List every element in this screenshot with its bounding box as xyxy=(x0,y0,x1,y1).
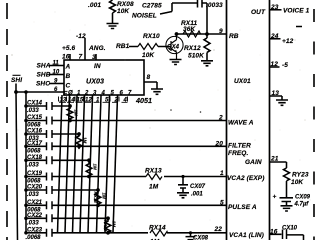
svg-text:SHB: SHB xyxy=(37,72,51,79)
svg-text:23: 23 xyxy=(270,4,279,11)
capacitor CX23 plates xyxy=(47,229,53,237)
svg-text:1M: 1M xyxy=(83,137,88,144)
svg-text:8: 8 xyxy=(147,74,151,81)
svg-text:.033: .033 xyxy=(27,108,39,114)
svg-text:CX15: CX15 xyxy=(27,115,43,121)
svg-text:A: A xyxy=(65,64,71,71)
resistor 1M (CX16/CX17 pair) xyxy=(76,134,82,149)
svg-text:UX01: UX01 xyxy=(234,78,251,85)
svg-text:CX09: CX09 xyxy=(295,195,311,201)
capacitor CX15 .0068 row wire (WAVE A) xyxy=(26,120,227,122)
capacitor CX15 plates xyxy=(47,117,53,125)
4051 channel line 7 (pin 4) xyxy=(113,95,118,233)
svg-text:CX16: CX16 xyxy=(27,129,43,135)
resistor 1M (CX18/CX19 pair) xyxy=(86,160,92,177)
wire NOISEL to C2785 node xyxy=(160,3,197,14)
svg-text:10K: 10K xyxy=(117,8,130,15)
svg-text:3: 3 xyxy=(92,54,96,61)
resistor RY23 10K xyxy=(284,168,290,198)
capacitor CX14 plates xyxy=(47,102,53,110)
svg-text:1M: 1M xyxy=(102,193,107,200)
4051 channel line 3 (pin 12) xyxy=(80,95,85,233)
node: RX12/cap junction xyxy=(205,32,209,36)
capacitor C? value .001 (top-left, clipped) xyxy=(0,0,1,1)
wire .0033 cap to RB node xyxy=(206,3,208,34)
capacitor bus (sample/hold common) xyxy=(25,92,27,233)
svg-text:RX08: RX08 xyxy=(117,1,134,8)
svg-text:10K: 10K xyxy=(142,52,155,59)
capacitor CX08 (clipped at bottom) xyxy=(186,233,196,240)
svg-text:CX22: CX22 xyxy=(27,213,43,219)
svg-text:RX19: RX19 xyxy=(103,220,108,232)
capacitor CX21 .0068 row wire (PULSE A) xyxy=(26,204,227,206)
ground (UX03 pin 8) xyxy=(151,89,163,94)
wire SHA to pin 11 xyxy=(49,65,64,67)
svg-text:20: 20 xyxy=(215,140,224,147)
4051 channel line 2 (pin 15) xyxy=(72,95,77,233)
resistor 1M (CX14/CX15 pair) xyxy=(67,106,73,121)
left page boundary (dashed) xyxy=(6,0,8,240)
svg-text:4: 4 xyxy=(101,91,106,97)
svg-text:.001: .001 xyxy=(88,2,101,9)
svg-text:VOICE 1: VOICE 1 xyxy=(283,7,310,14)
svg-text:9: 9 xyxy=(219,28,223,35)
svg-text:SHA: SHA xyxy=(37,63,51,70)
svg-text:.0033: .0033 xyxy=(206,2,223,9)
resistor 1M (CX20/CX21 pair) xyxy=(95,190,101,206)
pin 7 wire (-12) xyxy=(84,38,86,60)
capacitor CX21 plates xyxy=(47,201,53,209)
capacitor CX16 .033 row wire xyxy=(26,133,79,135)
svg-text:RX13: RX13 xyxy=(145,168,162,175)
capacitor CX19 .0068 row wire (VCA2 EXP) xyxy=(26,176,227,178)
svg-text:14: 14 xyxy=(68,98,75,104)
svg-text:CX17: CX17 xyxy=(27,141,43,147)
pin 24 stub (+12) xyxy=(270,38,281,40)
pin 16 stub (+5.6) xyxy=(69,54,71,60)
wire SHB to pin 10 xyxy=(49,74,64,76)
IC UX03 4051 body xyxy=(64,60,144,95)
svg-text:RY23: RY23 xyxy=(292,172,309,179)
svg-text:CX08: CX08 xyxy=(193,236,209,240)
pin separator ticks under UX03 xyxy=(59,97,128,102)
IC UX01 left edge xyxy=(226,0,228,240)
svg-text:QX4: QX4 xyxy=(167,45,180,51)
transistor QX4 (2SC2785) xyxy=(166,36,183,53)
svg-text:ANG.: ANG. xyxy=(88,45,106,52)
capacitor CX20 plates xyxy=(47,186,53,194)
svg-text:4051: 4051 xyxy=(135,96,152,105)
svg-text:1M: 1M xyxy=(74,110,79,117)
svg-text:4: 4 xyxy=(123,98,128,104)
svg-text:510K: 510K xyxy=(188,53,205,60)
svg-text:C2785: C2785 xyxy=(142,2,162,9)
wire SHC to pin 9 xyxy=(49,83,64,85)
ground (QX4 emitter) xyxy=(170,60,182,65)
svg-text:.033: .033 xyxy=(27,221,39,227)
IC UX01 right edge xyxy=(269,0,271,240)
resistor RX12 510K xyxy=(204,34,210,61)
ground (CX07) xyxy=(177,193,189,198)
svg-text:RX14: RX14 xyxy=(149,225,166,232)
pin 12 stub (-5) xyxy=(270,66,280,68)
capacitor CX23 .0068 row wire (VCA1 LIN) xyxy=(26,232,227,234)
svg-text:CX14: CX14 xyxy=(27,101,43,107)
svg-text:SHI: SHI xyxy=(11,77,22,84)
wire RB net (QX4 collector to pin 9) xyxy=(177,33,227,35)
svg-text:UX03: UX03 xyxy=(86,77,104,86)
capacitor CX07 .001 to ground xyxy=(178,177,188,193)
4051 channel line 1 (pin 14) xyxy=(65,95,70,233)
pin 16 stub and capacitor CX10 xyxy=(270,234,304,240)
svg-text:2: 2 xyxy=(114,98,119,104)
svg-text:13: 13 xyxy=(272,90,280,97)
svg-text:.033: .033 xyxy=(27,192,39,198)
svg-text:C: C xyxy=(66,83,71,90)
svg-text:12: 12 xyxy=(271,61,279,68)
4051 channel line 6 (pin 2) xyxy=(105,95,110,233)
capacitor CX09 4.7uf (polarized) xyxy=(280,198,294,206)
svg-text:RX10: RX10 xyxy=(143,33,160,40)
svg-text:.0068: .0068 xyxy=(26,149,42,155)
svg-text:-12: -12 xyxy=(76,33,86,40)
svg-text:.001: .001 xyxy=(191,192,203,198)
capacitor CX18 .033 row wire xyxy=(26,159,89,161)
svg-text:21: 21 xyxy=(270,156,279,163)
capacitor CX18 plates xyxy=(47,156,53,164)
4051 channel line 0 (pin 13) xyxy=(57,95,62,233)
resistor RX13 1M xyxy=(146,174,162,180)
svg-text:11: 11 xyxy=(53,61,60,67)
speck marks (scan artifacts) xyxy=(170,109,172,111)
svg-text:VCA1 (LIN): VCA1 (LIN) xyxy=(229,232,264,239)
svg-text:22: 22 xyxy=(214,226,223,233)
svg-text:1: 1 xyxy=(220,170,224,177)
capacitor CX22 .033 row wire xyxy=(26,217,108,219)
capacitor CX17 .0068 row wire (FILTER FREQ) xyxy=(26,145,227,147)
svg-text:CX07: CX07 xyxy=(190,184,206,190)
capacitor CX14 .033 row wire xyxy=(26,105,70,107)
capacitor CX17 plates xyxy=(47,142,53,150)
svg-text:16: 16 xyxy=(62,54,70,61)
pin 23 stub (VOICE 1) xyxy=(270,9,282,11)
svg-text:24: 24 xyxy=(270,33,279,40)
resistor RX14 1M xyxy=(150,230,168,236)
capacitor CX22 plates xyxy=(47,214,53,222)
svg-text:16: 16 xyxy=(270,228,278,235)
ground (RX08) xyxy=(107,24,119,29)
capacitor .0033 xyxy=(198,0,208,8)
svg-text:FILTER: FILTER xyxy=(228,143,251,150)
svg-text:10K: 10K xyxy=(291,179,304,186)
capacitor CX20 .033 row wire xyxy=(26,189,98,191)
svg-text:CX20: CX20 xyxy=(27,185,43,191)
ground (CX09) xyxy=(281,206,293,211)
node: QX4 collector junction xyxy=(175,32,179,36)
svg-text:.0068: .0068 xyxy=(26,123,42,129)
svg-text:7: 7 xyxy=(79,54,83,61)
svg-text:.033: .033 xyxy=(27,162,39,168)
svg-text:13: 13 xyxy=(60,98,67,104)
svg-text:PULSE A: PULSE A xyxy=(228,204,257,211)
capacitor CX19 plates xyxy=(47,173,53,181)
pin 8 wire to ground xyxy=(144,82,157,89)
svg-text:VCA2 (EXP): VCA2 (EXP) xyxy=(227,175,264,182)
pin 21 wire (GAIN) to RY23 xyxy=(270,162,287,168)
svg-text:RX12: RX12 xyxy=(184,45,201,52)
resistor RX08 10K xyxy=(110,0,116,23)
svg-text:B: B xyxy=(66,73,71,80)
wire SHI to pin 6 (E) xyxy=(16,84,64,240)
svg-text:GAIN: GAIN xyxy=(245,159,262,166)
svg-text:4.7µf: 4.7µf xyxy=(294,202,310,208)
pin number underlines under UX03 xyxy=(59,101,128,103)
svg-text:15: 15 xyxy=(77,98,84,104)
svg-text:1M: 1M xyxy=(112,221,117,228)
svg-text:2: 2 xyxy=(218,115,223,122)
svg-text:FREQ.: FREQ. xyxy=(228,150,248,157)
svg-text:10: 10 xyxy=(53,70,60,76)
svg-text:12: 12 xyxy=(85,98,92,104)
svg-text:2: 2 xyxy=(84,91,89,97)
ground (RX12) xyxy=(201,61,213,66)
svg-text:1M: 1M xyxy=(93,164,98,171)
svg-text:36K: 36K xyxy=(183,26,196,33)
svg-text:Ø: Ø xyxy=(68,91,73,97)
4051 channel line 5 (pin 5) xyxy=(96,95,101,233)
resistor 1M (CX22/CX23 pair) xyxy=(105,218,111,234)
svg-text:IN: IN xyxy=(94,63,101,70)
svg-text:OUT: OUT xyxy=(251,9,266,16)
wire RB1 to QX4 base xyxy=(129,46,171,48)
node SHI corner xyxy=(14,90,18,94)
right page boundary (dashed) xyxy=(313,9,315,240)
4051 channel line 4 (pin 1) xyxy=(88,95,93,233)
minus sign near VOICE 1 xyxy=(296,26,302,28)
pin 3 stub (ANLG IN) xyxy=(95,54,97,60)
capacitor CX16 plates xyxy=(47,130,53,138)
svg-text:RX18: RX18 xyxy=(93,192,98,204)
svg-text:NOISEL: NOISEL xyxy=(132,13,157,20)
svg-text:SHC: SHC xyxy=(36,81,50,88)
svg-text:+5.6: +5.6 xyxy=(62,45,76,52)
svg-text:1M: 1M xyxy=(149,184,159,191)
svg-text:+: + xyxy=(273,194,277,201)
resistor RX10 10K xyxy=(138,44,158,50)
svg-text:CX21: CX21 xyxy=(27,200,43,206)
svg-text:5: 5 xyxy=(220,200,224,207)
svg-text:CX18: CX18 xyxy=(27,155,43,161)
svg-text:+12: +12 xyxy=(282,38,294,45)
ground (UX01 pin 13) xyxy=(276,100,288,105)
svg-text:.0068: .0068 xyxy=(26,235,42,240)
svg-text:-5: -5 xyxy=(282,62,288,69)
svg-text:RB: RB xyxy=(229,33,239,40)
resistor RX11 36K xyxy=(183,31,201,37)
svg-text:WAVE A: WAVE A xyxy=(228,120,254,127)
pin 13 stub to ground xyxy=(270,96,283,100)
svg-text:CX19: CX19 xyxy=(27,171,43,177)
svg-text:RB1: RB1 xyxy=(116,43,130,50)
svg-text:CX23: CX23 xyxy=(27,227,43,233)
svg-text:CX10: CX10 xyxy=(282,226,298,232)
